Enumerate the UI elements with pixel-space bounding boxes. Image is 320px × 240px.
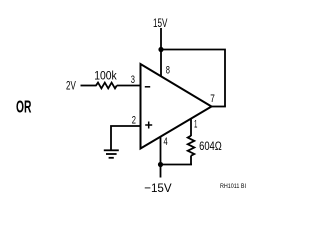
svg-text:−15V: −15V xyxy=(144,181,172,195)
op-amp inverting input minus sign xyxy=(145,86,150,88)
svg-text:2: 2 xyxy=(132,114,136,126)
svg-text:2V: 2V xyxy=(66,79,76,93)
resistor R2 604ohm xyxy=(188,136,222,156)
svg-text:604Ω: 604Ω xyxy=(199,139,222,153)
op-amp U1 triangle xyxy=(141,64,212,149)
svg-text:4: 4 xyxy=(164,136,168,148)
resistor R1 100k xyxy=(94,69,117,89)
svg-text:OR: OR xyxy=(16,96,32,116)
svg-text:RH1011 BI: RH1011 BI xyxy=(220,183,246,190)
wire pin 4 to -15V xyxy=(160,137,162,178)
svg-text:8: 8 xyxy=(166,64,170,76)
wire output stub pin 7 xyxy=(210,106,226,108)
wire resistor bottom to rail xyxy=(190,156,192,165)
svg-text:1: 1 xyxy=(194,119,197,131)
svg-text:3: 3 xyxy=(131,74,135,86)
op-amp non-inverting input plus sign xyxy=(145,122,152,129)
wire pin 1 to resistor xyxy=(190,119,192,137)
junction dot 15V node xyxy=(158,47,163,52)
ground xyxy=(104,150,119,158)
wire bottom rail xyxy=(161,164,193,166)
svg-text:100k: 100k xyxy=(94,69,117,83)
wire top rail to output xyxy=(161,50,225,107)
junction dot -15V node xyxy=(158,162,163,167)
wire pin 2 to ground xyxy=(111,126,141,150)
wire 2V lead xyxy=(81,85,97,87)
svg-text:7: 7 xyxy=(210,93,215,105)
wire 15V to pin 8 xyxy=(160,28,162,77)
wire resistor to pin 3 xyxy=(117,85,141,87)
